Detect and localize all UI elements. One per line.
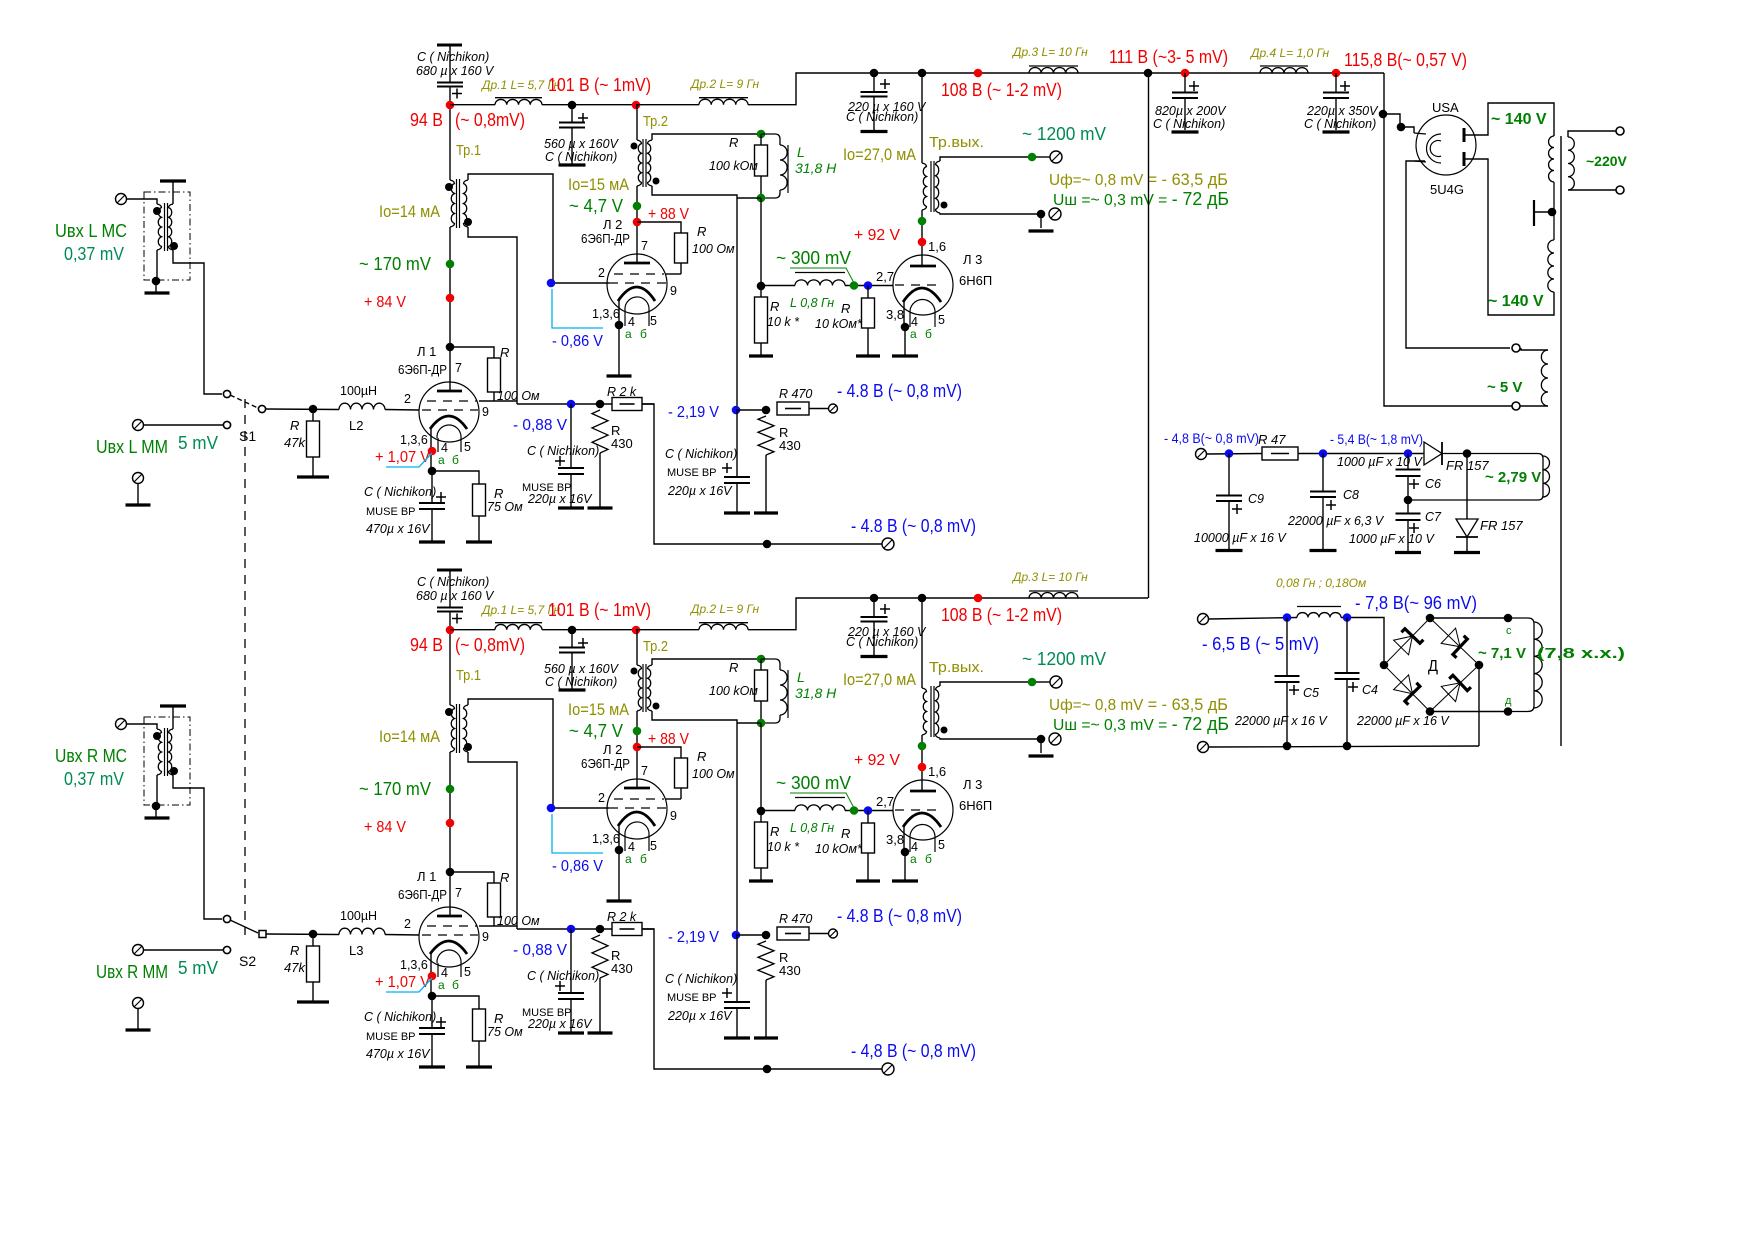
wire (cathode) [430,954,432,996]
capacitor C9 [1216,496,1242,502]
wire (Л3 plate) [921,735,923,791]
svg-text:R 470: R 470 [779,912,812,926]
wire [1383,114,1400,126]
svg-text:9: 9 [482,930,489,944]
wire [1228,501,1230,549]
svg-text:220µ x 16V: 220µ x 16V [527,1017,593,1031]
resistor R 47k (R) [307,946,320,982]
node 111 В [1181,69,1190,78]
node [918,742,927,751]
phase dot [653,703,660,710]
capacitor MUSE BP 220µ (L cathode) [558,468,584,474]
wire [867,853,869,880]
junction [918,594,927,603]
ground [1454,551,1480,554]
capacitor C 820µ x 200V [1172,93,1198,99]
wire [1184,98,1186,130]
wire [385,409,419,412]
wire [1430,711,1505,713]
svg-text:(7,8 х.х.): (7,8 х.х.) [1537,645,1625,662]
svg-text:0,37 mV: 0,37 mV [64,244,124,264]
wire [867,286,869,299]
svg-text:3,8: 3,8 [886,832,904,847]
output terminal [1049,733,1061,745]
wire [312,409,314,421]
heater pin 4 [437,438,439,452]
resistor R 2 k (R) [612,923,642,936]
cathode lead [903,826,905,851]
resistor R 470 (R) [777,927,809,940]
svg-text:Тр.вых.: Тр.вых. [929,134,984,151]
wire [1466,454,1468,520]
svg-text:а: а [438,453,445,467]
choke Др.2 [699,98,748,105]
screen / center tap bar [1534,200,1552,226]
MC transformer core [167,203,169,251]
filament winding ~2,79 V [1408,454,1543,501]
node 108 В [974,594,983,603]
svg-text:2: 2 [404,392,411,406]
svg-text:C ( Nichikon): C ( Nichikon) [417,50,489,64]
wire [571,630,573,648]
svg-text:- 0,88 V: - 0,88 V [513,417,567,434]
junction [762,406,771,415]
wire [736,409,766,411]
svg-text:L 0,8 Гн: L 0,8 Гн [790,296,834,310]
wire [571,653,573,690]
resistor R 100 Ом (Л1 L) [488,358,501,392]
svg-text:101 В (~ 1mV): 101 В (~ 1mV) [548,75,651,95]
cathode arc [618,812,655,826]
svg-text:Л 3: Л 3 [963,252,982,267]
svg-text:Тр.вых.: Тр.вых. [929,659,984,676]
node -0,88 V [567,400,576,409]
svg-text:430: 430 [779,963,801,978]
input terminal MM L [133,420,144,431]
svg-text:100 kОм: 100 kОм [709,159,758,173]
svg-text:220µ x 16V: 220µ x 16V [667,484,733,498]
cathode arc [903,813,941,827]
wire [760,176,762,198]
svg-text:- 6,5 В (~ 5 mV): - 6,5 В (~ 5 mV) [1202,634,1319,654]
svg-text:6Н6П: 6Н6П [959,273,992,288]
ground terminal [133,998,144,1009]
svg-text:2: 2 [598,266,605,280]
wire [156,775,158,806]
ground [160,179,186,182]
svg-text:(~ 0,8mV): (~ 0,8mV) [455,635,525,655]
wire [761,285,795,287]
svg-text:47k: 47k [284,960,306,975]
wire [1184,73,1186,92]
wire [493,917,495,926]
junction [1343,742,1352,751]
Тр.вых core [930,161,932,212]
junction [757,807,766,816]
svg-text:470µ x 16V: 470µ x 16V [366,1047,431,1061]
wire (B+ to both channels) [1148,73,1150,598]
wire [921,73,923,163]
wire [736,410,738,477]
switch S2 MM contact [223,946,230,953]
wire [449,630,451,705]
svg-text:C ( Nichikon): C ( Nichikon) [665,447,737,461]
svg-text:5: 5 [464,965,471,979]
svg-text:220µ x 16V: 220µ x 16V [527,492,593,506]
wire [571,105,573,123]
heater pin 5 [648,833,650,851]
anode (plate) bar [910,790,936,793]
output terminal [1050,676,1062,688]
junction [1037,210,1046,219]
svg-text:C8: C8 [1343,488,1359,502]
svg-text:5 mV: 5 mV [178,433,218,453]
MC transformer primary winding [157,204,162,250]
tube Л 3 6Н6П (L) [893,255,953,315]
resistor R 75 Ом (R) [473,1009,486,1041]
svg-text:- 7,8 В(~ 96 mV): - 7,8 В(~ 96 mV) [1355,593,1477,613]
wire (anode 2 to HV winding) [1464,159,1554,315]
node -0,86 V [547,279,556,288]
ground [861,655,888,658]
wire [570,474,572,507]
resistor R 430 (L cathode) [592,410,608,453]
wire [312,934,314,946]
tube Л 3 6Н6П (R) [893,780,953,840]
svg-text:7: 7 [455,886,462,900]
svg-text:Др.4 L= 1,0 Гн: Др.4 L= 1,0 Гн [1249,46,1329,60]
svg-text:Io=27,0 мА: Io=27,0 мА [843,670,917,689]
ground [1029,229,1054,232]
ground [466,1065,492,1068]
inductor L2 100µH [339,403,385,409]
svg-text:MUSE BP: MUSE BP [667,467,717,479]
tube Л 1 6Э6П-ДР [419,382,479,442]
phase dot [445,708,453,716]
ground [145,291,170,294]
ground [749,354,773,357]
junction plate/R [446,868,455,877]
svg-text:Io=14 мА: Io=14 мА [379,727,441,746]
heater arc [910,299,935,313]
svg-text:Тр.2: Тр.2 [643,113,668,130]
svg-text:10 kОм*: 10 kОм* [815,317,863,331]
wire (Тр.2 secondary bottom) [652,186,737,410]
MC transformer core [167,728,169,776]
Тр.2 core [642,664,644,712]
ground [724,511,750,514]
svg-text:7: 7 [641,764,648,778]
svg-text:C ( Nichikon): C ( Nichikon) [417,575,489,589]
svg-text:- 4.8 В (~ 0,8 mV): - 4.8 В (~ 0,8 mV) [837,381,962,401]
wire [1298,453,1424,455]
wire (output +) [940,157,1028,161]
wire (Л2 plate) [636,186,638,263]
Тр.вых core [930,686,932,737]
switch S2 MC contact [223,915,230,922]
svg-text:101 В (~ 1mV): 101 В (~ 1mV) [548,600,651,620]
junction [309,930,318,939]
node -4,8 В [1225,449,1234,458]
svg-text:а: а [625,852,632,866]
resistor R 10 kОм* (L) [862,298,875,328]
center tap [1548,208,1557,217]
junction [596,925,605,934]
junction plate/R [446,343,455,352]
Тр.1 core [459,704,461,753]
wire [904,327,906,355]
junction cathode [615,846,624,855]
svg-text:22000 µF x 6,3 V: 22000 µF x 6,3 V [1287,514,1385,528]
svg-text:~ 4,7 V: ~ 4,7 V [569,196,623,216]
capacitor C 680µ x 160 V [437,608,463,612]
junction [870,69,879,78]
wire [809,933,828,935]
anode 1 of 5U4G [1463,128,1466,142]
terminal R470 [829,404,838,413]
wire (pin 9) [479,925,517,927]
node (top of R||L) [757,130,766,139]
svg-text:C9: C9 [1248,492,1264,506]
ground [558,1031,584,1034]
svg-text:C ( Nichikon): C ( Nichikon) [364,485,436,499]
junction [1379,110,1388,119]
ground [1323,130,1350,133]
svg-text:75 Ом: 75 Ом [487,1025,523,1039]
svg-text:Др.3 L= 10 Гн: Др.3 L= 10 Гн [1011,45,1088,59]
wire [450,347,494,358]
node ~170 mV [446,785,455,794]
resistor R 430 (R cathode) [592,935,608,978]
switch S1 blade [230,395,258,408]
junction [152,802,161,811]
wire [873,73,875,92]
junction [1144,69,1153,78]
svg-text:R: R [841,826,850,841]
svg-text:~ 140 V: ~ 140 V [1491,111,1547,128]
svg-text:- 4.8 В (~ 0,8 mV): - 4.8 В (~ 0,8 mV) [837,906,962,926]
grid (dashed) [614,273,664,275]
node [1319,449,1328,458]
wire (Тр.1 secondary top to Л2 grid) [468,699,553,808]
svg-text:9: 9 [482,405,489,419]
svg-text:Io=14 мА: Io=14 мА [379,202,441,221]
Тр.вых core [933,161,935,212]
svg-text:2: 2 [404,917,411,931]
svg-text:~ 300 mV: ~ 300 mV [776,773,851,793]
transformer Тр.1 primary (L) [450,180,455,227]
svg-text:R: R [290,418,299,433]
Тр.1 core [456,704,458,753]
wire [266,933,339,936]
resistor R 10 kОм* (R) [862,823,875,853]
node ~1200 mV [1028,153,1037,162]
wire (feedback) [517,928,654,930]
HV secondary winding (lower) [1548,240,1554,292]
junction cathode [615,321,624,330]
wire [1322,497,1324,549]
tube Л 2 6Э6П-ДР (R) [607,779,667,839]
wire [867,811,869,824]
svg-text:Uф=~ 0,8 mV = - 63,5 дБ: Uф=~ 0,8 mV = - 63,5 дБ [1049,170,1228,189]
svg-text:R: R [841,301,850,316]
svg-text:Л 3: Л 3 [963,777,982,792]
input terminal MC L [116,194,127,205]
phase dot [170,767,178,775]
wire [1040,739,1042,753]
resistor R 47 [1262,447,1298,460]
svg-text:Др.2 L= 9 Гн: Др.2 L= 9 Гн [689,602,759,616]
filament of 5U4G [1427,134,1442,163]
capacitor C8 [1310,492,1336,498]
wire [873,622,875,656]
wire [143,949,223,951]
svg-text:б: б [925,327,932,341]
ground [126,1028,151,1031]
svg-text:б: б [640,852,647,866]
ground [1310,549,1337,552]
svg-text:~ 1200 mV: ~ 1200 mV [1022,124,1106,144]
terminal -6,5 V [1198,614,1209,625]
Тр.1 secondary winding [464,180,469,227]
svg-text:5: 5 [650,314,657,328]
node ~4,7 V [633,202,642,211]
svg-text:7: 7 [641,239,648,253]
wire [760,868,762,880]
junction [309,405,318,414]
svg-text:~ 1200 mV: ~ 1200 mV [1022,649,1106,669]
wire (pin 9) [666,798,681,800]
wire (to -4,8 V terminal) [642,404,887,544]
capacitor C 560µ x 160V [559,123,585,128]
svg-text:680 µ x 160 V: 680 µ x 160 V [416,589,495,603]
svg-text:C ( Nichikon): C ( Nichikon) [846,110,918,124]
cathode arc [430,416,467,429]
svg-text:L: L [797,669,805,685]
terminal common [1198,742,1209,753]
grid (dashed) [427,925,477,927]
svg-text:C ( Nichikon): C ( Nichikon) [527,444,599,458]
wire [760,286,762,297]
svg-text:~ 300 mV: ~ 300 mV [776,248,851,268]
svg-text:R: R [494,1011,503,1026]
wire [761,810,795,812]
junction [1404,496,1413,505]
heater pin 4 [437,963,439,977]
wire (plate of Л1 to Тр.1) [449,232,451,388]
node 115,8 В [1332,69,1341,78]
ground [1029,754,1054,757]
resistor R 100 Ом (Л2 L) [675,233,688,263]
svg-text:а: а [625,327,632,341]
svg-text:R: R [697,224,706,239]
junction [918,69,927,78]
wire [1036,681,1050,683]
heater pin 4 [624,310,626,326]
svg-text:+ 88 V: + 88 V [648,206,689,223]
phase dot [464,218,472,226]
L core [787,670,789,718]
ground [1216,549,1243,552]
svg-text:5U4G: 5U4G [1430,182,1464,197]
svg-text:Л 1: Л 1 [417,869,436,884]
resistor R 10 k* (L) [755,297,768,343]
junction cathode [901,323,910,332]
svg-text:Л 2: Л 2 [603,742,622,757]
anode (plate) bar [624,262,650,265]
junction [1283,742,1292,751]
bridge node (right) [1475,661,1484,670]
svg-text:7: 7 [455,361,462,375]
wire [143,424,223,426]
svg-text:1,6: 1,6 [928,764,946,779]
svg-text:- 4,8 В (~ 0,8 mV): - 4,8 В (~ 0,8 mV) [851,1041,976,1061]
svg-text:1,3,6: 1,3,6 [592,307,620,321]
wire [1346,618,1348,674]
svg-text:R: R [500,345,509,360]
svg-text:- 4.8 В (~ 0,8 mV): - 4.8 В (~ 0,8 mV) [851,516,976,536]
leader line [552,814,603,853]
svg-text:6Э6П-ДР: 6Э6П-ДР [581,231,630,246]
wire [172,706,174,729]
ground [754,511,778,514]
switch S2 blade [230,920,258,933]
wire [599,978,601,1032]
svg-text:USA: USA [1432,100,1459,115]
svg-text:б: б [640,327,647,341]
ground [607,899,632,902]
ground [856,354,880,357]
wire [636,105,638,140]
svg-text:~ 4,7 V: ~ 4,7 V [569,721,623,741]
junction [763,540,772,549]
wire [493,392,495,401]
svg-text:5 mV: 5 mV [178,958,218,978]
svg-text:2: 2 [598,791,605,805]
mains terminal [1616,186,1624,194]
svg-text:R: R [500,870,509,885]
ground [588,506,613,509]
wire (B+ rail) [450,104,495,106]
node 94 В [446,101,455,110]
phase dot [941,727,948,734]
svg-text:R: R [494,486,503,501]
ground [297,475,329,478]
inductor L 31,8 H (L) [761,134,780,145]
wire [449,752,451,757]
wire [266,408,339,411]
ground [559,688,586,691]
svg-text:9: 9 [670,284,677,298]
resistor R 2 k (L) [612,398,642,411]
svg-text:75 Ом: 75 Ом [487,500,523,514]
wire [431,996,433,1028]
svg-text:111 В (~3- 5 mV): 111 В (~3- 5 mV) [1109,47,1228,67]
svg-text:L3: L3 [349,943,363,958]
svg-text:R: R [770,299,779,314]
wire [431,1034,433,1066]
svg-text:1000 µF x 10 V: 1000 µF x 10 V [1337,455,1423,469]
node (bottom of R||L) [757,194,766,203]
ground [892,354,918,357]
switch S2 common contact [259,931,266,938]
wire [1407,476,1409,513]
ground [856,879,880,882]
wire (Тр.1 secondary bottom) [468,227,517,404]
wire [478,516,480,541]
transformer Тр.2 secondary (L) [648,140,653,186]
svg-text:115,8 В(~ 0,57 V): 115,8 В(~ 0,57 V) [1344,50,1467,70]
